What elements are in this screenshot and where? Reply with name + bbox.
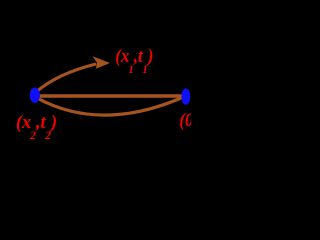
node right blue endpoint — [181, 88, 190, 104]
wire: curved arrow path to (x1,t1) — [36, 64, 96, 92]
node (x2,t2) left blue endpoint — [30, 88, 40, 103]
path-integral diagram — [0, 0, 191, 142]
wire: straight path between nodes — [38, 94, 184, 97]
svg-text:(0,t): (0,t) — [179, 109, 191, 131]
arrowhead — [93, 56, 111, 69]
wire: sagging lower path — [37, 97, 185, 116]
